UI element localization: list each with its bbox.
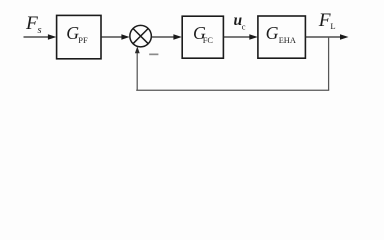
svg-text:G: G (266, 23, 279, 43)
arrowhead output (340, 34, 349, 40)
minus sign at feedback input (149, 54, 158, 56)
summing junction X diagonal 1 (133, 29, 148, 44)
block G_PF (57, 15, 101, 58)
node label F_L (318, 10, 336, 31)
wire: summing junction to G_FC (151, 36, 174, 38)
svg-text:PF: PF (78, 36, 88, 45)
label G_PF (66, 23, 88, 45)
label G_EHA (266, 23, 296, 45)
svg-text:FC: FC (203, 36, 214, 45)
label G_FC (193, 23, 213, 45)
summing junction X diagonal 2 (133, 29, 148, 44)
svg-text:F: F (318, 10, 331, 31)
svg-text:s: s (38, 25, 42, 36)
wire: output signal line (305, 36, 341, 38)
arrowhead into summing junction (feedback) (135, 46, 140, 53)
svg-text:c: c (242, 21, 246, 31)
wire: input signal line (24, 36, 50, 38)
node label F_s (25, 13, 42, 36)
arrowhead into summing junction (121, 34, 129, 40)
block G_FC (182, 16, 223, 58)
block G_EHA (258, 16, 306, 58)
wire: feedback vertical up to summing junction (136, 52, 138, 91)
arrowhead into G_PF (48, 34, 57, 40)
arrowhead into G_FC (173, 34, 182, 40)
summing junction circle (130, 25, 152, 47)
svg-text:EHA: EHA (279, 36, 296, 45)
arrowhead into G_EHA (249, 34, 257, 40)
wire: G_PF to summing junction (101, 36, 123, 38)
svg-text:L: L (330, 21, 335, 31)
node label u_c (234, 12, 246, 31)
wire: feedback vertical down from output tap (328, 37, 330, 90)
wire: feedback bottom rail (136, 89, 329, 91)
svg-text:F: F (25, 13, 38, 34)
wire: G_FC to G_EHA (223, 36, 250, 38)
